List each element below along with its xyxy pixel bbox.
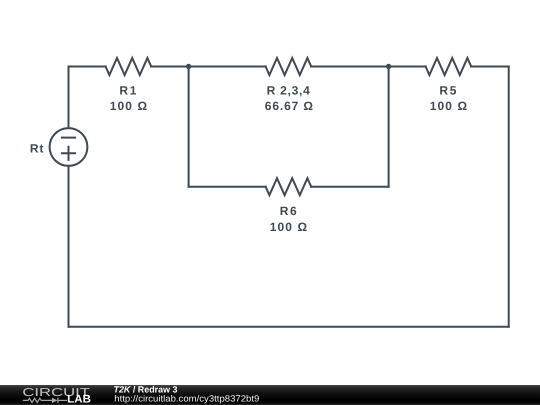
wire left vertical lower (68, 166, 70, 327)
svg-text:http://circuitlab.com/cy3ttp83: http://circuitlab.com/cy3ttp8372bt9 (114, 393, 259, 403)
svg-text:100 Ω: 100 Ω (270, 220, 308, 234)
svg-text:R1: R1 (119, 83, 136, 97)
wire middle branch right horizontal (311, 186, 388, 188)
resistor R5 (426, 58, 472, 75)
resistor R1 (106, 58, 152, 75)
wire node A to R2,3,4 (189, 66, 266, 68)
CircuitLab logo diode triangle (52, 398, 58, 403)
voltage source plus sign (62, 147, 75, 160)
CircuitLab logo resistor zigzag and diode (23, 398, 67, 403)
wire node B to R5 (389, 66, 426, 68)
node A junction dot (186, 64, 191, 69)
svg-text:R6: R6 (280, 204, 297, 218)
wire right vertical (508, 67, 510, 327)
wire top-left horizontal (69, 66, 106, 68)
svg-text:LAB: LAB (67, 394, 91, 405)
wire middle branch left horizontal (189, 186, 266, 188)
wire middle branch right vertical (388, 67, 390, 187)
wire bottom horizontal (69, 326, 509, 328)
svg-text:66.67 Ω: 66.67 Ω (265, 99, 314, 113)
wire left vertical upper (68, 67, 70, 129)
wire middle branch left vertical (188, 67, 190, 187)
svg-text:R 2,3,4: R 2,3,4 (267, 83, 311, 97)
wire R1 to node A (151, 66, 188, 68)
resistor R6 (266, 178, 312, 195)
svg-text:100 Ω: 100 Ω (430, 99, 468, 113)
resistor R2,3,4 (266, 58, 312, 75)
svg-text:Rt: Rt (30, 141, 44, 155)
wire R2,3,4 to node B (311, 66, 388, 68)
wire R5 to top-right corner (471, 66, 509, 68)
svg-text:100 Ω: 100 Ω (110, 99, 148, 113)
voltage source minus sign (62, 137, 75, 139)
svg-text:R5: R5 (439, 83, 456, 97)
footer bar (0, 385, 540, 405)
node B junction dot (386, 64, 391, 69)
voltage source Rt circle (50, 128, 88, 166)
